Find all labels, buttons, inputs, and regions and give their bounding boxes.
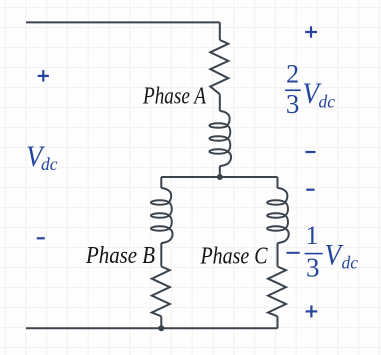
svg-text:dc: dc — [319, 92, 336, 112]
label plus right bottom (-1/3 Vdc +) — [306, 305, 318, 317]
label fraction 2/3 Vdc — [285, 59, 335, 119]
svg-text:dc: dc — [342, 253, 359, 273]
node junction dot center — [217, 174, 223, 180]
label minus right (2/3 Vdc -) — [305, 151, 315, 153]
wire resistor C to bottom rail — [277, 316, 279, 328]
inductor Phase A — [209, 111, 231, 166]
inductor Phase B — [151, 188, 173, 243]
svg-text:1: 1 — [306, 221, 319, 250]
svg-text:2: 2 — [286, 59, 299, 88]
resistor Phase B — [152, 267, 170, 317]
svg-text:Phase B: Phase B — [85, 243, 155, 269]
label Vdc left — [26, 140, 58, 174]
svg-text:Phase C: Phase C — [200, 244, 269, 270]
wire inductor C to resistor C — [277, 243, 279, 266]
wire phase C top lead — [277, 177, 279, 188]
wire between resistor A and inductor A — [219, 94, 221, 111]
wire bottom rail — [26, 327, 278, 329]
label minus right (-1/3 Vdc -) — [306, 189, 314, 191]
label minus left (Vdc -) — [37, 237, 45, 239]
wire inductor A to center node — [219, 166, 221, 177]
svg-text:3: 3 — [306, 253, 320, 283]
node junction dot bottom — [158, 325, 164, 331]
resistor Phase A — [210, 40, 228, 94]
wire center bar — [161, 176, 277, 178]
resistor Phase C — [268, 267, 286, 317]
svg-text:3: 3 — [286, 89, 300, 119]
svg-text:Phase A: Phase A — [142, 84, 206, 110]
inductor Phase C — [267, 188, 289, 243]
wire inductor B to resistor B — [160, 243, 162, 266]
label plus right top (2/3 Vdc +) — [305, 26, 317, 37]
wire phase A top lead — [219, 22, 221, 40]
svg-text:dc: dc — [41, 154, 58, 174]
label plus left (Vdc +) — [38, 70, 49, 82]
label fraction -1/3 Vdc — [287, 221, 359, 283]
wire resistor B to bottom rail — [160, 316, 162, 328]
wire phase B top lead — [160, 177, 162, 188]
wire top rail — [26, 21, 220, 23]
